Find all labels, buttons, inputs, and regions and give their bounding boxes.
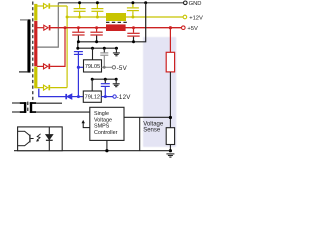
- regulator U2 79L05: [84, 60, 102, 72]
- junction +5 sense tap: [169, 26, 172, 29]
- junction -12V node: [104, 95, 107, 98]
- diode D4 yellow anode wire: [37, 87, 43, 89]
- 79L05 output wire: [102, 66, 113, 68]
- +12V rail wire: [67, 16, 185, 18]
- junction dots +5 rail: [77, 26, 135, 29]
- diode D1 yellow anode wire: [37, 5, 43, 7]
- svg-text:Voltage: Voltage: [94, 117, 112, 123]
- svg-text:+12V: +12V: [189, 15, 203, 21]
- transformer T1 secondary winding yellow lower: [34, 67, 37, 89]
- junction sense node: [169, 116, 172, 119]
- diode D4 output wire: [50, 87, 67, 89]
- red cap C4: [72, 28, 84, 42]
- controller bottom pin wire: [106, 140, 108, 150]
- junction dots top gnd bus: [78, 1, 147, 4]
- controller U1 box: [90, 107, 124, 140]
- inductor core dashes: [106, 21, 128, 23]
- ground symbol bottom: [166, 154, 174, 157]
- bottom bus wire: [14, 150, 170, 152]
- red cap C5: [90, 28, 102, 42]
- transformer T2 right winding: [30, 102, 36, 113]
- optocoupler U4 box: [18, 127, 63, 151]
- diode D3 output wire: [50, 28, 65, 67]
- resistor R2 bottom wire: [169, 145, 171, 151]
- gnd center tap wire: [37, 3, 58, 47]
- gnd bus1 wire: [78, 3, 146, 48]
- diode D1 yellow: [44, 3, 50, 8]
- -12V rail wire: [72, 96, 84, 98]
- terminal -5V: [112, 66, 115, 69]
- diode D5 blue: [66, 94, 72, 99]
- blue cap C9: [101, 79, 110, 96]
- transformer T2 left winding: [20, 102, 27, 113]
- transformer T2 core: [27, 102, 29, 114]
- regulator U3 79L12: [83, 91, 101, 102]
- svg-text:-5V: -5V: [117, 65, 128, 72]
- T2 left top lead: [12, 102, 20, 104]
- 79L05 input wire: [78, 66, 83, 68]
- junction dots bus2: [76, 47, 118, 50]
- 79L05 gnd pin wire: [92, 48, 94, 60]
- voltage sense shaded region: [143, 37, 176, 147]
- junction +12 rail join: [66, 16, 69, 19]
- yellow join vertical wire: [66, 6, 68, 88]
- gnd bus3 wire: [92, 78, 117, 80]
- terminal +12V: [183, 15, 187, 19]
- T2 drive wire to controller: [36, 111, 90, 113]
- junction blue node: [77, 95, 80, 98]
- junction -5V node: [103, 66, 106, 69]
- yellow cap C2: [91, 3, 103, 17]
- inductor L2 red: [106, 24, 126, 31]
- svg-text:Controller: Controller: [94, 130, 118, 136]
- svg-text:SMPS: SMPS: [94, 124, 110, 130]
- diode D3 red anode wire: [37, 65, 43, 67]
- transformer T1 primary top lead: [20, 19, 28, 21]
- svg-text:Sense: Sense: [143, 128, 161, 134]
- red cap C6: [127, 28, 139, 42]
- svg-text:GND: GND: [189, 1, 202, 7]
- transformer T1 primary winding: [27, 19, 30, 72]
- T2 left bottom lead: [12, 111, 20, 113]
- terminal GND: [184, 1, 188, 5]
- transformer T1 core: [32, 2, 34, 103]
- T2 top right lead stub: [36, 102, 62, 104]
- 79L12 output wire: [101, 96, 113, 98]
- +5V rail wire: [50, 27, 183, 29]
- svg-text:-12V: -12V: [117, 94, 132, 101]
- junction dots bus3: [91, 78, 118, 81]
- svg-text:Voltage: Voltage: [143, 122, 164, 128]
- gray cap C8: [100, 48, 108, 67]
- blue cap C7: [74, 52, 83, 55]
- diode D2 red: [44, 25, 50, 30]
- svg-text:79L05: 79L05: [85, 64, 100, 70]
- inductor L1 yellow: [106, 13, 126, 21]
- transformer T1 secondary winding red middle: [34, 21, 37, 66]
- controller sense wire: [124, 116, 170, 118]
- junction dots +12 rail: [78, 16, 134, 19]
- blue winding tap wire: [39, 89, 66, 97]
- opto phototransistor: [18, 131, 34, 145]
- terminal +5V: [182, 26, 186, 30]
- junction controller gnd: [105, 149, 108, 152]
- top gnd bus wire: [58, 2, 185, 4]
- ground symbol bus2: [113, 48, 120, 56]
- feedback arrow: [83, 122, 90, 127]
- svg-text:+5V: +5V: [187, 26, 198, 32]
- opto photon arrows: [37, 134, 41, 141]
- diode D3 red: [44, 64, 50, 69]
- sense return wire: [139, 117, 141, 150]
- svg-text:79L12: 79L12: [85, 95, 100, 101]
- yellow cap C3: [127, 3, 139, 17]
- yellow cap C1: [74, 3, 86, 17]
- junction +5 join: [64, 26, 67, 29]
- transformer T1 secondary winding yellow upper: [34, 4, 37, 21]
- opto LED: [46, 127, 53, 151]
- transformer T1 primary bottom lead: [19, 71, 28, 73]
- junction blue input node: [77, 66, 80, 69]
- junction bottom node: [169, 149, 172, 152]
- svg-text:Single: Single: [94, 111, 109, 117]
- sense mid wire: [169, 72, 171, 128]
- diode D1 output wire: [50, 5, 67, 7]
- gnd bus2 wire: [78, 47, 118, 49]
- diode D4 yellow: [44, 85, 50, 90]
- terminal -12V: [113, 95, 116, 98]
- ground symbol bus3: [113, 79, 120, 87]
- resistor R1: [166, 52, 174, 72]
- resistor R2: [166, 128, 174, 145]
- sense divider top wire: [169, 28, 171, 53]
- blue vertical feed wire: [77, 51, 79, 97]
- 79L12 gnd pin wire: [91, 79, 93, 91]
- diode D2 red anode wire: [37, 27, 44, 29]
- junction dots bus1: [77, 40, 135, 43]
